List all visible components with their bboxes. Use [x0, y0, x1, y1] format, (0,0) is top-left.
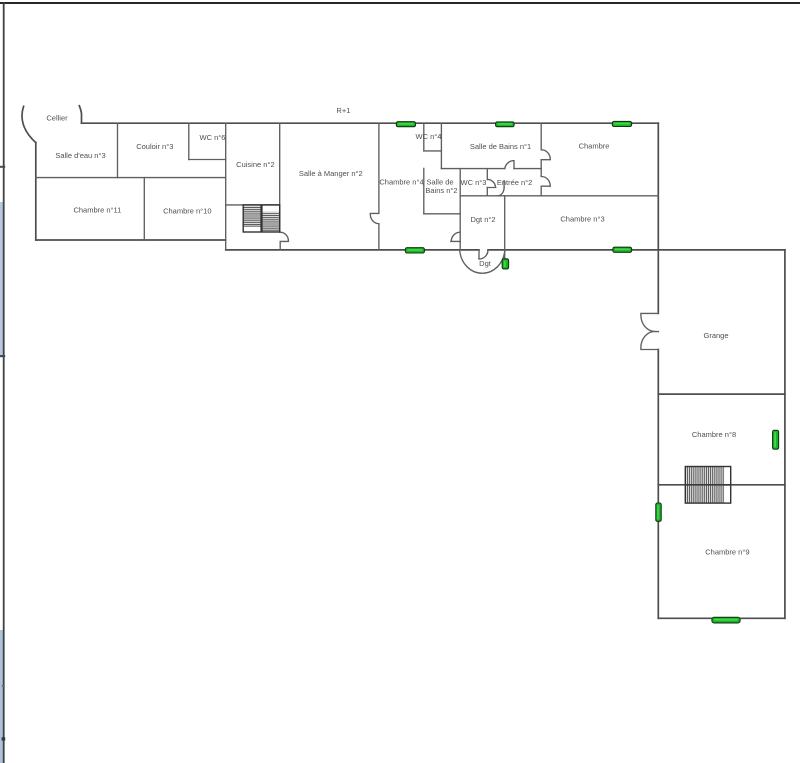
frame top border: [0, 2, 800, 4]
wall top outer: [82, 122, 659, 124]
wall long y196: [487, 195, 658, 197]
svg-text:Salle de Bains n°1: Salle de Bains n°1: [470, 142, 531, 151]
wall sdb2 right / dgt left: [459, 169, 461, 250]
left edge tick 1: [0, 166, 5, 168]
wall bottom chambre11-10: [36, 239, 226, 241]
door wc3 arc: [487, 179, 496, 187]
svg-text:Cellier: Cellier: [46, 113, 68, 122]
wall salle d'eau / couloir: [117, 123, 119, 177]
svg-text:Cuisine n°2: Cuisine n°2: [236, 160, 274, 169]
wall wc3 right upper: [486, 169, 488, 180]
svg-text:Chambre n°10: Chambre n°10: [163, 206, 211, 215]
wall wc4 right: [440, 123, 442, 168]
wall bottom long left part: [226, 249, 479, 251]
dgt semicircle: [460, 250, 505, 273]
wall cellier arc left: [22, 106, 36, 142]
window marker G6 dgt vertical: [502, 259, 508, 269]
wall chambre8 bottom: [658, 484, 785, 486]
wall left outer: [35, 143, 37, 240]
wall salle a manger left + entry door step: [280, 123, 289, 250]
wall sdb1 bottom left part: [441, 168, 504, 170]
svg-text:WC n°3: WC n°3: [461, 178, 487, 187]
wall salle a manger right with door notch: [370, 123, 379, 250]
door entree arc: [498, 188, 505, 196]
svg-text:Chambre: Chambre: [579, 142, 610, 151]
wall right block bottom: [658, 617, 785, 619]
stairs kitchen left flight fill: [243, 206, 261, 227]
wall chambre8 bottom over stairs: [685, 484, 730, 486]
stairs right block fill: [686, 467, 724, 503]
svg-text:Chambre n°11: Chambre n°11: [73, 206, 121, 215]
svg-text:Salle à Manger n°2: Salle à Manger n°2: [299, 169, 363, 178]
wall right block right: [784, 250, 786, 618]
svg-text:R+1: R+1: [336, 106, 350, 115]
wall sdb2 bottom: [424, 213, 460, 215]
wall wc3 right lower: [486, 188, 488, 196]
panel edge: blue strip upper: [0, 202, 3, 356]
stairs right block treads: [688, 467, 724, 504]
svg-text:Entrée n°2: Entrée n°2: [497, 178, 533, 187]
door chambre notch2: [541, 177, 550, 187]
left edge tick 2: [0, 355, 5, 357]
window marker G7 chambre8 right vertical: [773, 430, 779, 449]
door dgt small arc: [479, 250, 488, 259]
window marker G3 top: [612, 121, 631, 126]
stairs kitchen right flight fill: [262, 211, 280, 231]
left edge dot lower: [2, 737, 6, 740]
svg-text:Salle d'eau n°3: Salle d'eau n°3: [55, 151, 105, 160]
door dgt stub: [478, 250, 480, 259]
wall cuisine bottom: [226, 204, 280, 206]
svg-text:Dgt: Dgt: [479, 259, 492, 268]
svg-text:WC n°6: WC n°6: [200, 133, 226, 142]
window marker G5 bottom: [613, 247, 632, 252]
svg-text:WC n°4: WC n°4: [416, 132, 442, 141]
wall couloir bottom: [36, 177, 226, 179]
window marker G1 top: [396, 122, 415, 127]
wall bottom long right part: [488, 249, 785, 251]
wall grange left upper: [657, 250, 659, 314]
wall wc4 bottom: [424, 150, 442, 152]
wall chambre left upper: [540, 123, 542, 150]
wall wc4 left: [423, 123, 425, 151]
door sdb1 arc: [505, 161, 514, 169]
wall wc6 left: [188, 123, 190, 159]
wall ch11 / ch10: [143, 178, 145, 240]
svg-text:Dgt n°2: Dgt n°2: [470, 215, 495, 224]
svg-text:Bains n°2: Bains n°2: [425, 186, 457, 195]
svg-text:Couloir n°3: Couloir n°3: [136, 142, 173, 151]
stairs kitchen divider: [260, 205, 262, 232]
wall chambre left lower: [540, 186, 542, 196]
svg-text:Grange: Grange: [703, 331, 728, 340]
wall cellier right curve: [79, 106, 81, 123]
wall dgt right: [504, 196, 506, 259]
svg-text:Chambre n°4: Chambre n°4: [379, 178, 423, 187]
window marker G8 chambre9 left vertical: [656, 503, 661, 521]
stairs kitchen treads right: [262, 214, 280, 231]
svg-text:Chambre n°8: Chambre n°8: [692, 430, 736, 439]
svg-text:Chambre n°3: Chambre n°3: [560, 214, 604, 223]
wall wc3 bottom: [460, 195, 487, 197]
window marker G2 top: [496, 122, 514, 127]
frame left border: [3, 2, 5, 763]
stairs kitchen outer box: [243, 205, 280, 232]
wall chambre left mid: [540, 160, 542, 177]
grange double door: [641, 313, 659, 349]
window marker G4 bottom: [405, 248, 424, 253]
wall sdb1 bottom right part: [514, 168, 541, 170]
panel edge: blue strip lower: [0, 630, 3, 763]
door dgt left arc: [451, 232, 460, 241]
wall sdb2 left: [423, 168, 425, 213]
stairs kitchen treads left: [243, 208, 261, 227]
door chambre notch1: [541, 150, 550, 160]
stairs right block outer box: [685, 467, 730, 504]
door entree stub: [503, 181, 505, 188]
left edge faint tick 3: [2, 685, 5, 687]
wall wc6 bottom: [189, 159, 226, 161]
wall cuisine left: [225, 123, 227, 250]
wall right of top block: [657, 123, 659, 250]
wall grange left lower: [657, 350, 659, 619]
wall grange bottom: [658, 393, 785, 395]
window marker G9 chambre9 bottom: [712, 617, 740, 623]
svg-text:Chambre n°9: Chambre n°9: [705, 548, 749, 557]
